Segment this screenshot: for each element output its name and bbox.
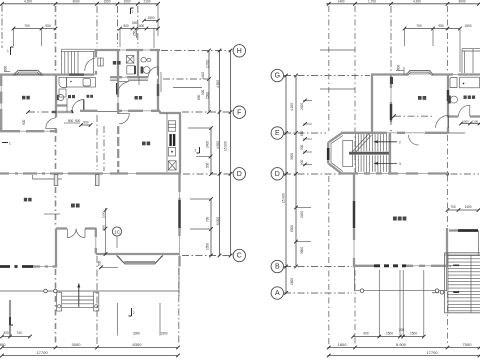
svg-text:6300: 6300 (133, 342, 143, 347)
svg-text:1800: 1800 (338, 342, 348, 347)
svg-text:900: 900 (300, 159, 304, 165)
bath basin (127, 66, 135, 74)
svg-text:1500: 1500 (205, 92, 209, 99)
top dim row2 left group 700/950 (14, 28, 56, 30)
label family room 起居室 (393, 217, 406, 221)
svg-text:1.700: 1.700 (368, 0, 376, 4)
svg-text:700: 700 (205, 216, 209, 222)
svg-text:D: D (275, 171, 280, 178)
double door arcs (67, 229, 76, 238)
stair treads lower (356, 155, 390, 172)
svg-text:1500: 1500 (464, 24, 471, 28)
svg-text:2400: 2400 (300, 103, 304, 110)
svg-text:1500: 1500 (386, 332, 393, 336)
wall x96 kitchen/hall (95, 50, 97, 58)
wall x56 lower (55, 229, 57, 268)
label bath 卫生间 (464, 96, 476, 99)
grid bubble A (271, 287, 283, 299)
svg-text:2100: 2100 (143, 0, 150, 4)
svg-text:500: 500 (97, 260, 101, 266)
svg-text:6900: 6900 (290, 225, 294, 232)
wc partition x67 (66, 98, 68, 112)
column stub x97 (95, 175, 99, 186)
wall x372 west (371, 75, 373, 134)
dim column line x=209 upper (208, 51, 210, 113)
main wall y173.5 (0, 172, 181, 174)
axis line x=55.5 vertical main (55, 6, 57, 72)
svg-text:800: 800 (4, 65, 8, 71)
wall y131 bedroom bottom (0, 130, 57, 132)
svg-text:900: 900 (201, 89, 205, 95)
svg-text:4.200: 4.200 (24, 0, 32, 4)
terrace edge (0, 290, 180, 292)
dim column line x=219.5 (219, 51, 221, 256)
bath fixtures right plan (450, 78, 457, 88)
kitchen counter (59, 77, 67, 87)
axis E y=133 (284, 132, 326, 134)
svg-text:1000: 1000 (462, 119, 469, 123)
svg-text:400: 400 (139, 24, 145, 28)
stair arrow up (374, 141, 397, 143)
top dim row2 right group 900/250/400 (120, 28, 158, 30)
grid bubble E (271, 127, 283, 139)
svg-text:1: 1 (7, 49, 9, 53)
top dim row2 right plan 700/950 (405, 28, 461, 30)
detail bubble 1C (112, 227, 121, 236)
wall x158 (157, 50, 159, 111)
svg-text:2: 2 (399, 141, 401, 145)
dim column line x=211 lower (210, 128, 212, 174)
door arc study (116, 83, 118, 95)
svg-text:500: 500 (389, 120, 393, 125)
family west wall x354 (353, 174, 355, 268)
svg-text:200: 200 (399, 328, 405, 332)
door arc kitchen south (72, 100, 84, 112)
dim 900 kitchen (81, 124, 91, 126)
door arc corridor (409, 135, 419, 145)
family east wall x447 (446, 228, 448, 268)
section marker 1 top (130, 8, 132, 14)
svg-text:1500: 1500 (147, 16, 154, 20)
grid bubble F (233, 106, 245, 118)
svg-text:900: 900 (75, 119, 81, 123)
stair strip kitchen appliances column (160, 111, 182, 174)
family room top wall y173.5 (341, 172, 448, 174)
interior dim living (105, 208, 107, 254)
svg-text:700: 700 (416, 24, 422, 28)
dim 700/1400 right plan (448, 209, 479, 211)
svg-text:300: 300 (3, 331, 9, 335)
top dim row1 left plan (2, 3, 158, 5)
corridor wall y132.8 (341, 132, 448, 134)
axis A y=293 (284, 292, 352, 294)
wall y254 with bay (96, 253, 180, 255)
svg-text:900: 900 (300, 144, 304, 150)
svg-text:2: 2 (195, 149, 197, 153)
stairwell well (343, 141, 353, 167)
dim column line x=230.5 (230, 51, 232, 256)
bottom row2 left plan 17700 (2, 355, 178, 357)
axis line x=447.5 (447, 6, 449, 72)
outdoor stair right plan (432, 253, 480, 313)
svg-text:4.200: 4.200 (413, 0, 421, 4)
axis line x=328.8 (328, 6, 330, 131)
svg-text:1400: 1400 (201, 72, 205, 79)
level mark right plan (396, 70, 404, 72)
label master bedroom 主卧 (418, 96, 426, 100)
grid bubble D right (271, 168, 283, 180)
svg-text:A: A (275, 290, 280, 297)
bottom small dims left (8, 300, 10, 337)
terrace corner (178, 291, 180, 296)
label living 客厅 (71, 204, 80, 208)
bay window trapezoid top right plan (406, 71, 433, 76)
bottom mid ext lines left plan (117, 303, 119, 336)
svg-text:2.700: 2.700 (205, 60, 209, 68)
bottom mid dims right plan 900/1500/200/1500 (378, 270, 380, 337)
svg-text:950: 950 (438, 24, 444, 28)
section marker 2 (199, 147, 201, 153)
level mark 800 (4, 71, 10, 73)
svg-text:1400: 1400 (337, 0, 344, 4)
wall top y74.5 right plan (371, 73, 480, 75)
interior dim dash bedroom (394, 115, 433, 117)
bay window trapezoid top-left (13, 70, 43, 75)
terrace columns (44, 289, 48, 293)
bottom row1 left plan (2, 347, 178, 349)
svg-text:2: 2 (133, 311, 135, 315)
wc wall y105 (56, 104, 67, 106)
axis G y=75.5 (284, 75, 370, 77)
svg-text:H: H (237, 48, 242, 55)
svg-text:1C: 1C (114, 229, 121, 234)
axis line x=97 vertical (96, 6, 98, 47)
svg-text:6.900: 6.900 (0, 342, 6, 347)
threshold y112 (58, 110, 73, 112)
ext lines right of left plan (163, 78, 209, 80)
svg-text:6.000: 6.000 (216, 217, 220, 225)
dim 500 mid-left (26, 110, 30, 114)
door arc bath right (459, 105, 470, 116)
beam line below wall (33, 178, 63, 180)
svg-text:700: 700 (450, 205, 456, 209)
axis D y=174 (183, 173, 231, 175)
wall x95.8 (95, 229, 97, 254)
axis line x=104 short (103, 126, 105, 171)
bath fixtures: shower box (126, 56, 134, 64)
axis line x=117.5 vertical (117, 6, 119, 47)
svg-text:F: F (237, 109, 241, 116)
column stub x56 (54, 175, 58, 186)
svg-text:800: 800 (68, 119, 74, 123)
stairwell right wall x390 (389, 133, 391, 174)
stair landing bar (349, 152, 390, 155)
dim 800/900 small boxed (64, 122, 80, 124)
wall y74.5 with bay window (0, 73, 95, 75)
bay window trapezoid bottom (117, 255, 164, 264)
svg-text:1500: 1500 (101, 211, 105, 218)
label bedroom 卧室 (22, 96, 30, 100)
axis B y=266.5 (284, 266, 352, 268)
wall top y50 (95, 49, 160, 51)
toilet room fixtures (141, 58, 146, 63)
svg-text:1500: 1500 (123, 0, 130, 4)
svg-text:1800: 1800 (290, 278, 294, 285)
svg-text:15.000: 15.000 (224, 141, 228, 151)
wall y111 (80, 110, 98, 112)
svg-text:740: 740 (16, 331, 22, 335)
entry steps (57, 283, 99, 311)
svg-text:3000: 3000 (133, 332, 140, 336)
wall x118 lower (117, 112, 119, 174)
svg-text:3000: 3000 (72, 0, 79, 4)
svg-text:700: 700 (24, 24, 30, 28)
door arc bedroom SE (436, 115, 448, 127)
svg-text:6.900: 6.900 (396, 342, 407, 347)
wall left x1 upper (0, 75, 2, 132)
svg-text:250: 250 (133, 30, 137, 36)
axis D right y=174 (284, 173, 352, 175)
500 leader (101, 266, 118, 268)
axis H y=50.5 (161, 50, 231, 52)
wall x138 bath partition (137, 50, 139, 77)
svg-text:17700: 17700 (426, 350, 438, 355)
top dim sub-row 1500 (144, 20, 158, 22)
grid bubble B (271, 260, 283, 272)
svg-text:3900: 3900 (290, 153, 294, 160)
svg-text:3000: 3000 (72, 342, 82, 347)
east jog wall y230.5 (449, 229, 458, 231)
svg-text:E: E (275, 130, 280, 137)
top dim row1 right plan (326, 3, 479, 5)
svg-text:1500: 1500 (160, 332, 167, 336)
grid bubble D left (233, 168, 245, 180)
svg-text:3: 3 (399, 162, 401, 166)
wall x179.5 right outer (178, 174, 180, 267)
svg-text:15.900: 15.900 (281, 193, 285, 203)
wall x448 bath west (447, 75, 449, 134)
label kitchen2 (68, 95, 75, 98)
wall x391 closet (390, 75, 392, 134)
svg-text:4.500: 4.500 (216, 141, 220, 149)
ext lines left of right plan (303, 100, 312, 102)
svg-text:1500: 1500 (410, 332, 417, 336)
stair pod west bay (328, 133, 343, 173)
svg-text:900: 900 (123, 24, 129, 28)
wall x56 bedroom right (55, 75, 57, 118)
door arc hall (119, 113, 129, 123)
svg-text:1500: 1500 (103, 0, 110, 4)
wall y76.5 (116, 76, 159, 78)
dark window wall dining south (0, 265, 33, 268)
door arc bedroom (46, 118, 56, 129)
ext line y214 (44, 213, 60, 215)
svg-text:500: 500 (205, 162, 209, 168)
label dining 餐厅 (24, 198, 32, 202)
svg-text:900: 900 (363, 332, 369, 336)
bay window top right (462, 49, 480, 73)
label kitchen 厨房 (142, 142, 150, 146)
dim column line x=296 right plan (295, 76, 297, 267)
svg-text:G: G (275, 73, 280, 80)
svg-text:3600: 3600 (300, 247, 304, 254)
svg-text:4.500: 4.500 (216, 80, 220, 88)
stair break diagonal (352, 134, 369, 153)
svg-text:7000: 7000 (463, 342, 473, 347)
axis line x=2 (1, 5, 3, 48)
svg-text:3000: 3000 (458, 0, 465, 4)
svg-text:2400: 2400 (205, 141, 209, 148)
svg-text:17700: 17700 (36, 350, 48, 355)
svg-text:250: 250 (132, 21, 138, 25)
grid bubble H (233, 45, 245, 57)
svg-text:C: C (237, 253, 242, 260)
svg-text:800: 800 (397, 64, 401, 70)
svg-text:1400: 1400 (464, 205, 471, 209)
dim column line x=286 right plan (285, 76, 287, 294)
svg-text:900: 900 (83, 121, 89, 125)
svg-text:1: 1 (132, 10, 134, 14)
svg-text:650: 650 (197, 94, 201, 100)
hall closet (98, 58, 103, 66)
dim 1000/1100 labels (461, 123, 480, 125)
axis F y=112 (182, 111, 231, 113)
grid bubble G (271, 69, 283, 81)
svg-text:1500: 1500 (205, 243, 209, 250)
bottom row1 right plan (328, 347, 480, 349)
bath bottom wall y116.5 (448, 115, 458, 117)
wall x118 (117, 50, 119, 111)
svg-text:D: D (237, 171, 242, 178)
svg-text:1100: 1100 (472, 119, 479, 123)
axis line x=391 (390, 6, 392, 73)
svg-text:B: B (275, 264, 280, 271)
section mark 1 mid-left (2, 142, 8, 144)
label study 书房 (135, 96, 143, 100)
label hall (113, 61, 121, 65)
porch with entrance stair (62, 49, 96, 73)
axis C y=255.5 (182, 255, 231, 257)
grid bubble C (233, 249, 245, 261)
svg-text:1: 1 (9, 142, 11, 146)
section marker 1 left (10, 47, 12, 55)
svg-text:500: 500 (22, 119, 26, 125)
axis line x=158 top ext (157, 4, 159, 36)
axis line x=178.8 bottom (178, 268, 180, 344)
axis line x=137.8 vertical (137, 6, 139, 47)
wc toilet (58, 95, 64, 101)
svg-text:4.200: 4.200 (290, 103, 294, 111)
wall y228.5 living south with double door (56, 227, 67, 229)
svg-text:950: 950 (45, 24, 51, 28)
door arc porch-kitchen (85, 58, 95, 71)
door arc bath (149, 67, 159, 77)
stair arrow down (374, 162, 397, 164)
svg-text:2400: 2400 (101, 224, 105, 231)
terrace right plan (354, 290, 447, 292)
svg-text:2400: 2400 (300, 211, 304, 218)
bottom row2 right plan 17700 (328, 355, 480, 357)
stair treads upper (356, 134, 390, 151)
axis line x=355 (354, 6, 356, 172)
svg-text:650: 650 (300, 130, 304, 136)
family south wall y265.8 (354, 265, 448, 267)
